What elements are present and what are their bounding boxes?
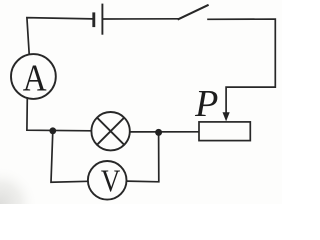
svg-text:P: P — [194, 83, 218, 125]
svg-text:V: V — [101, 165, 120, 199]
svg-text:A: A — [23, 56, 47, 99]
